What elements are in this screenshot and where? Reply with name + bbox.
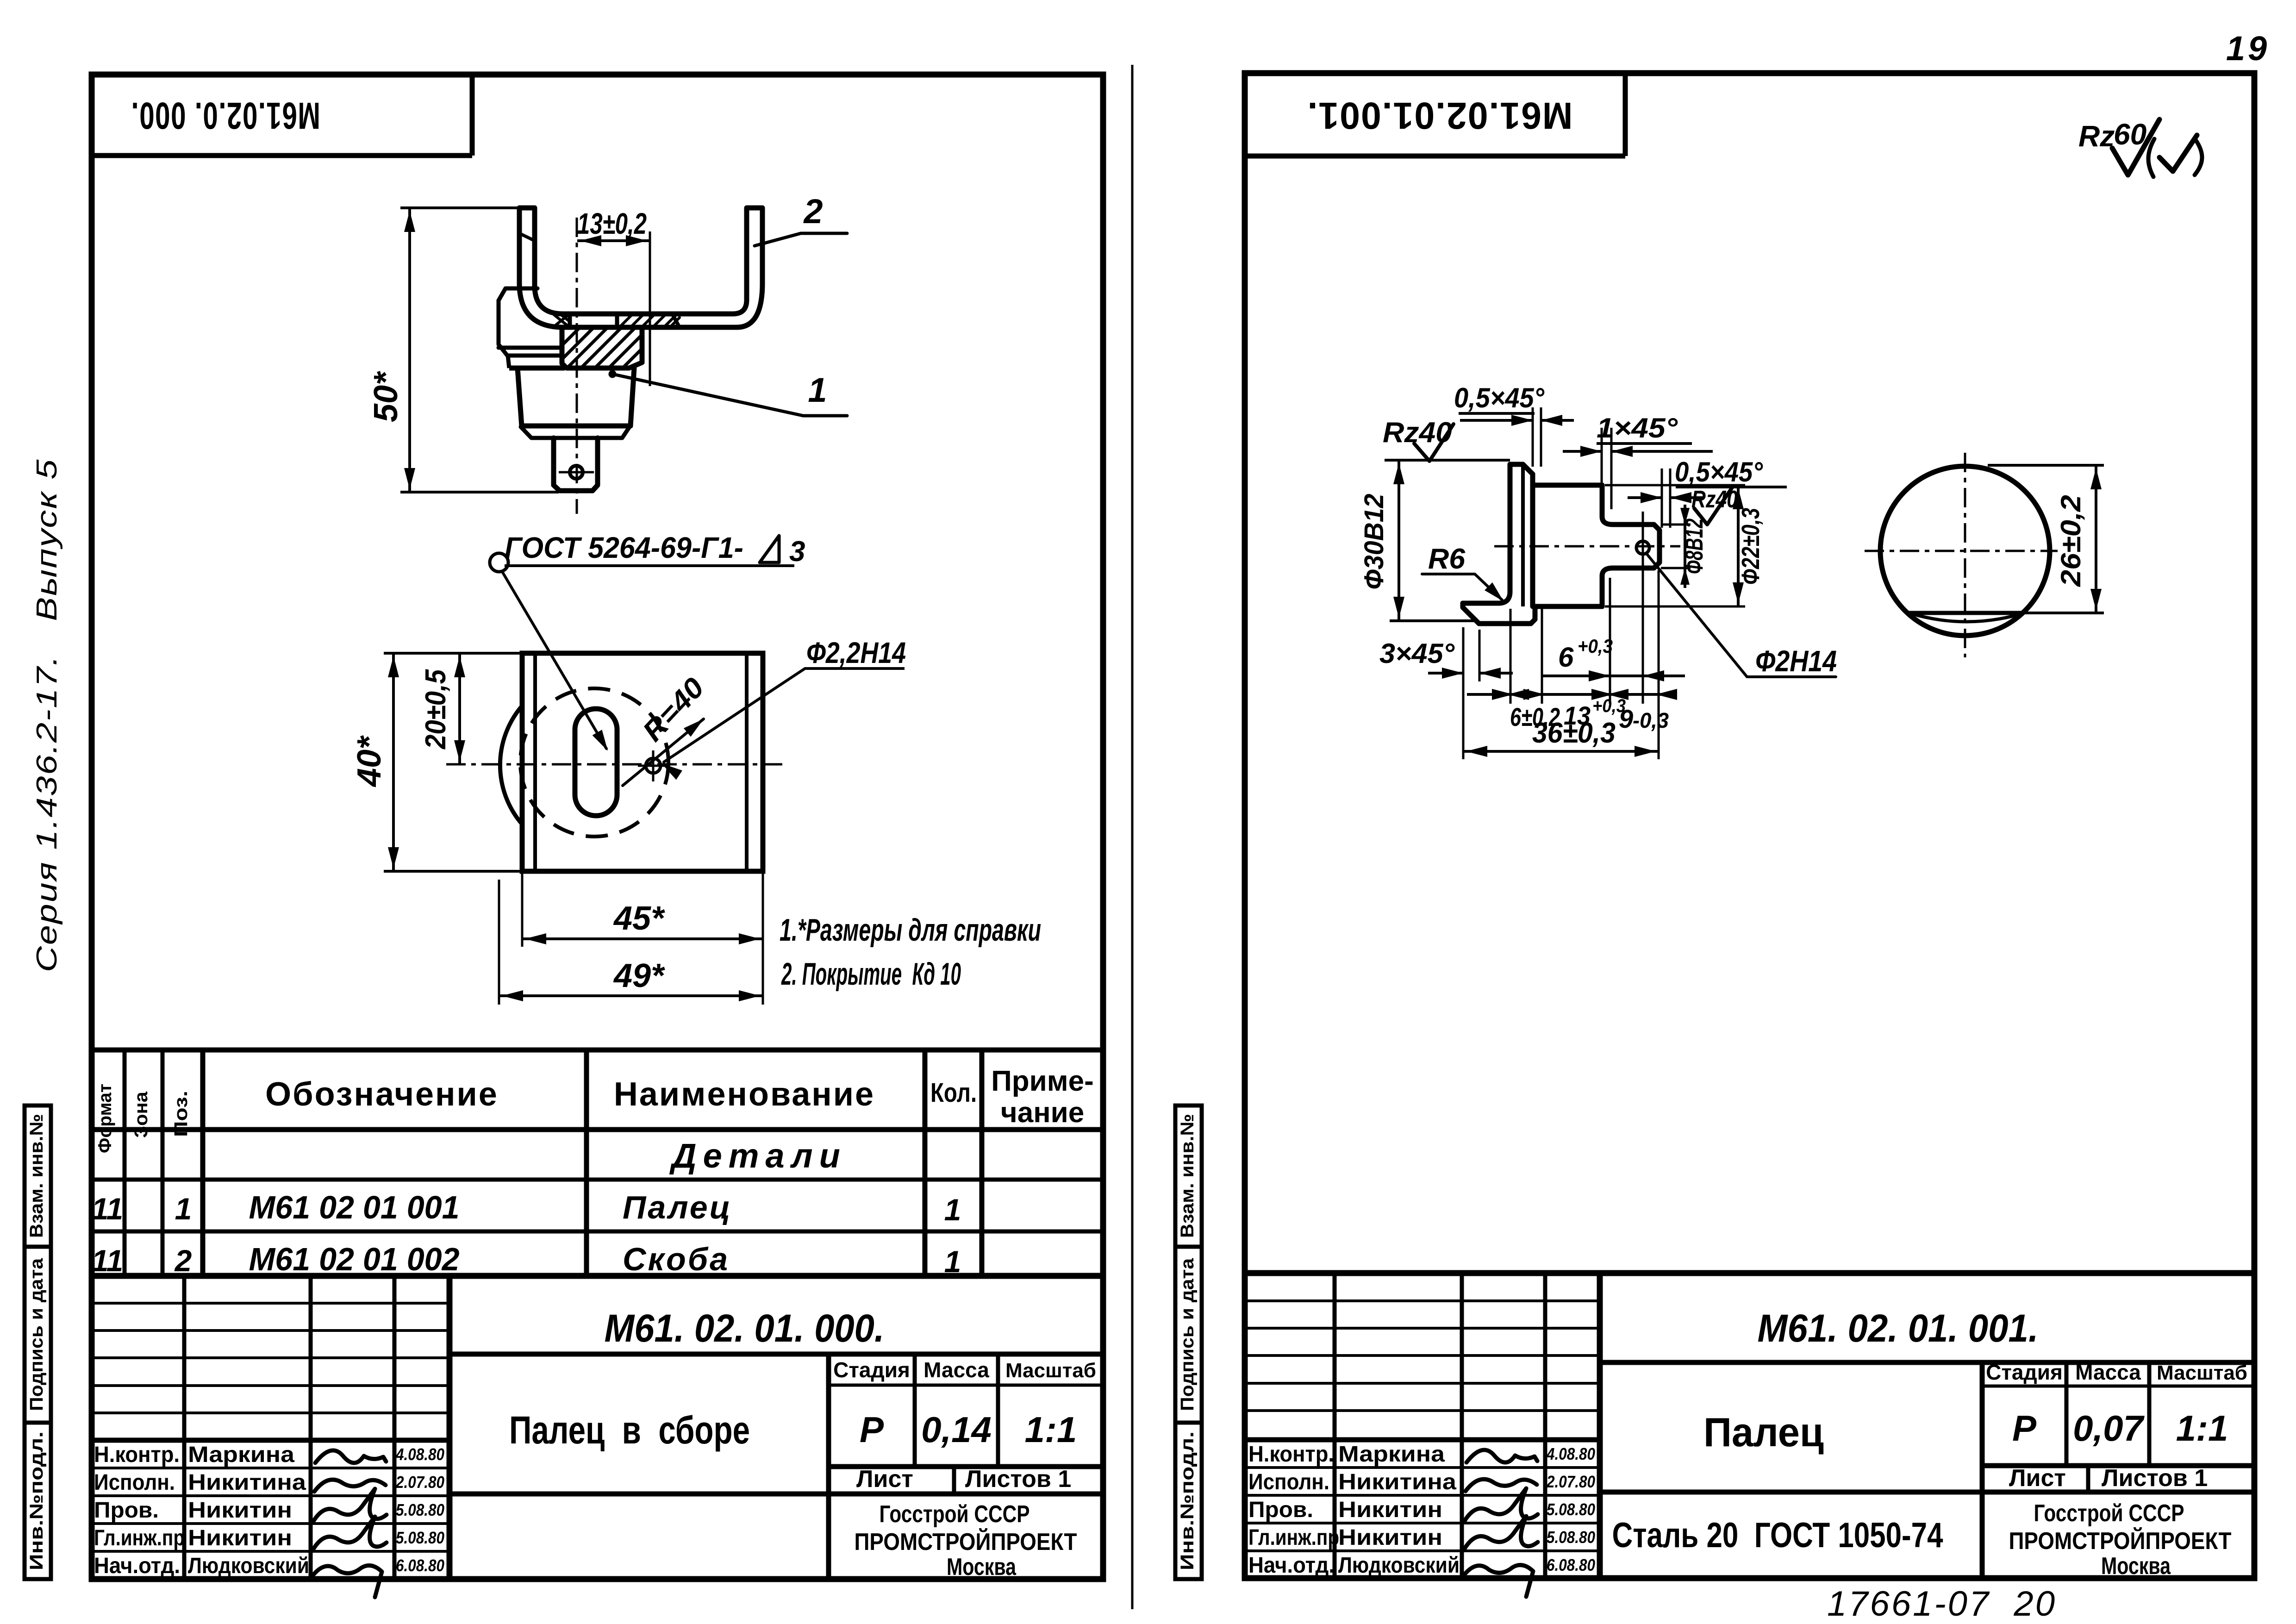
- right name cell: [1980, 1362, 1985, 1492]
- svg-text:Листов 1: Листов 1: [2102, 1465, 2208, 1492]
- svg-text:Подпись и дата: Подпись и дата: [1177, 1258, 1198, 1411]
- dim F8B12: [1661, 524, 1691, 526]
- right title block grid: [1245, 1270, 2254, 1276]
- svg-text:Маркина: Маркина: [1338, 1442, 1445, 1467]
- svg-text:Ф8В12: Ф8В12: [1680, 518, 1708, 574]
- svg-text:9: 9: [1619, 704, 1633, 733]
- svg-text:Исполн.: Исполн.: [1248, 1470, 1329, 1494]
- circle centerlines: [1964, 453, 1966, 657]
- svg-text:М61. 02. 01. 000.: М61. 02. 01. 000.: [605, 1306, 885, 1350]
- signatures right: [1466, 1450, 1537, 1462]
- pin outline: [1510, 464, 1533, 474]
- svg-text:ПРОМСТРОЙПРОЕКТ: ПРОМСТРОЙПРОЕКТ: [855, 1528, 1077, 1555]
- list row: [952, 1467, 956, 1494]
- right designation box: [1600, 1360, 2254, 1365]
- svg-text:4.08.80: 4.08.80: [1546, 1444, 1595, 1463]
- svg-text:Пров.: Пров.: [94, 1498, 159, 1523]
- org name left: [826, 1494, 831, 1579]
- svg-text:40*: 40*: [351, 735, 388, 787]
- pin axis: [1494, 545, 1680, 548]
- svg-text:М61.02.0. 000.: М61.02.0. 000.: [131, 94, 320, 137]
- svg-text:Поз.: Поз.: [171, 1091, 191, 1137]
- dim row 6 13 9: [1510, 609, 1512, 704]
- dim 50* vertical: [408, 208, 411, 492]
- svg-text:2: 2: [803, 192, 823, 231]
- svg-text:0,07: 0,07: [2073, 1408, 2145, 1449]
- svg-text:Р: Р: [2012, 1408, 2037, 1449]
- dim 20pm05: [458, 653, 461, 764]
- svg-text:5.08.80: 5.08.80: [1547, 1500, 1595, 1519]
- svg-text:Никитина: Никитина: [188, 1470, 306, 1495]
- svg-text:Масштаб: Масштаб: [1005, 1359, 1096, 1382]
- callout 1: [609, 371, 616, 377]
- svg-text:19: 19: [2226, 29, 2270, 68]
- svg-text:Масса: Масса: [2075, 1360, 2141, 1384]
- svg-text:Никитина: Никитина: [1338, 1470, 1456, 1494]
- svg-text:Приме-: Приме-: [991, 1065, 1094, 1097]
- svg-text:Стадия: Стадия: [833, 1358, 910, 1382]
- svg-text:Р: Р: [860, 1409, 884, 1450]
- svg-text:Сталь 20 ГОСТ 1050-74: Сталь 20 ГОСТ 1050-74: [1612, 1516, 1943, 1555]
- svg-text:6.08.80: 6.08.80: [396, 1556, 444, 1575]
- weld piece left (X hatch): [554, 315, 569, 326]
- small hole top view: [646, 758, 661, 773]
- svg-text:М61.02.01.001.: М61.02.01.001.: [1307, 94, 1573, 137]
- dim 40*: [392, 653, 395, 871]
- left margin strip boxes: [25, 1106, 51, 1579]
- svg-text:Подпись и дата: Подпись и дата: [26, 1258, 47, 1411]
- left stamp box: [92, 153, 472, 158]
- svg-text:Нач.отд.: Нач.отд.: [94, 1554, 180, 1578]
- parts table outline: [90, 1048, 1103, 1053]
- top view rectangle: [522, 653, 763, 871]
- svg-text:Rz: Rz: [2078, 119, 2115, 153]
- svg-text:Ф2,2Н14: Ф2,2Н14: [806, 636, 906, 669]
- svg-text:Зона: Зона: [131, 1091, 151, 1138]
- right stadia header: [1982, 1385, 2254, 1388]
- svg-text:4.08.80: 4.08.80: [395, 1445, 444, 1464]
- svg-text:Палец в сборе: Палец в сборе: [509, 1408, 750, 1452]
- svg-text:1: 1: [944, 1193, 961, 1227]
- svg-text:М61 02 01 001: М61 02 01 001: [249, 1189, 460, 1225]
- right list row: [2086, 1466, 2090, 1492]
- R=40 label: [623, 719, 704, 786]
- left title block grid: [182, 1276, 187, 1579]
- svg-text:0,5×45°: 0,5×45°: [1675, 456, 1763, 487]
- svg-text:Листов 1: Листов 1: [965, 1466, 1071, 1493]
- svg-text:1:1: 1:1: [2176, 1408, 2228, 1449]
- svg-text:Взам. инв.№: Взам. инв.№: [1177, 1114, 1198, 1238]
- svg-text:Никитин: Никитин: [188, 1498, 292, 1523]
- weld callout GOST 5264-69: [490, 553, 508, 572]
- pin head hatched section: [562, 329, 642, 368]
- svg-text:36±0,3: 36±0,3: [1532, 717, 1616, 749]
- svg-text:5.08.80: 5.08.80: [396, 1500, 444, 1519]
- svg-text:ГОСТ 5264-69-Г1-: ГОСТ 5264-69-Г1-: [505, 531, 743, 564]
- slot obround: [575, 709, 617, 816]
- svg-text:50*: 50*: [368, 371, 405, 422]
- svg-text:Инв.№подл.: Инв.№подл.: [1177, 1431, 1198, 1570]
- svg-text:Взам. инв.№: Взам. инв.№: [26, 1114, 47, 1238]
- pin foot (front, unsectioned): [505, 287, 537, 291]
- svg-text:Никитин: Никитин: [1338, 1498, 1442, 1522]
- svg-text:1: 1: [808, 371, 827, 409]
- svg-text:R6: R6: [1428, 543, 1466, 575]
- svg-text:Наименование: Наименование: [614, 1076, 875, 1113]
- org name right: [1980, 1492, 1985, 1579]
- svg-text:1:1: 1:1: [1025, 1409, 1077, 1450]
- right stamp box: [1245, 154, 1625, 159]
- dim F30B12: [1385, 459, 1460, 462]
- svg-text:5.08.80: 5.08.80: [396, 1528, 444, 1547]
- svg-text:Палец: Палец: [623, 1189, 732, 1225]
- bend lines: [533, 653, 537, 871]
- svg-text:1.*Размеры для справки: 1.*Размеры для справки: [780, 912, 1041, 948]
- svg-text:2.07.80: 2.07.80: [395, 1473, 444, 1492]
- svg-text:Детали: Детали: [669, 1137, 847, 1175]
- dim 49*: [498, 880, 500, 1005]
- svg-text:Н.контр.: Н.контр.: [94, 1443, 180, 1467]
- svg-text:0,5×45°: 0,5×45°: [1454, 382, 1545, 413]
- svg-text:Лист: Лист: [2009, 1465, 2066, 1492]
- flange jog tick: [519, 233, 535, 241]
- svg-text:1: 1: [175, 1192, 192, 1226]
- svg-text:6: 6: [1558, 642, 1574, 673]
- right margin strip boxes: [1175, 1106, 1202, 1579]
- stadia massa masshtab header: [829, 1384, 1103, 1387]
- svg-text:5.08.80: 5.08.80: [1547, 1528, 1595, 1547]
- pin shank: [554, 438, 598, 491]
- svg-text:Гл.инж.пр: Гл.инж.пр: [1248, 1525, 1339, 1550]
- shank hole: [570, 466, 583, 479]
- svg-text:26±0,2: 26±0,2: [2055, 495, 2086, 587]
- svg-text:Госстрой СССР: Госстрой СССР: [880, 1501, 1030, 1528]
- svg-text:2.07.80: 2.07.80: [1546, 1472, 1595, 1491]
- svg-text:Людковский: Людковский: [188, 1554, 309, 1578]
- svg-text:Ф22±0,3: Ф22±0,3: [1737, 508, 1765, 585]
- signatures left: [315, 1450, 386, 1463]
- svg-text:Палец: Палец: [1703, 1409, 1824, 1455]
- flat chord: [1909, 611, 2024, 615]
- svg-text:11: 11: [92, 1192, 124, 1226]
- sheet divider line: [1131, 65, 1134, 1609]
- top view centerline: [446, 763, 787, 766]
- svg-text:Людковский: Людковский: [1338, 1553, 1460, 1578]
- svg-text:Лист: Лист: [856, 1466, 913, 1493]
- dim 36: [1463, 750, 1659, 753]
- svg-text:Исполн.: Исполн.: [94, 1470, 175, 1495]
- pin collar below head: [518, 368, 634, 426]
- web cut piece right hatched: [619, 314, 680, 327]
- callout 2: [755, 233, 847, 246]
- svg-text:2. Покрытие Кд 10: 2. Покрытие Кд 10: [781, 956, 961, 992]
- pin axis centerline: [576, 218, 578, 514]
- svg-text:Пров.: Пров.: [1248, 1498, 1313, 1522]
- svg-text:3×45°: 3×45°: [1379, 638, 1455, 669]
- skoba bracket section: [519, 208, 762, 327]
- svg-text:17661-07 20: 17661-07 20: [1827, 1584, 2057, 1624]
- dim 45*: [521, 871, 524, 947]
- svg-text:6.08.80: 6.08.80: [1547, 1555, 1595, 1574]
- left bulge arc: [500, 707, 521, 823]
- svg-text:М61 02 01 002: М61 02 01 002: [249, 1241, 460, 1277]
- svg-text:М61. 02. 01. 001.: М61. 02. 01. 001.: [1758, 1306, 2039, 1350]
- svg-text:2: 2: [174, 1243, 192, 1278]
- svg-text:45*: 45*: [613, 900, 665, 937]
- svg-text:ПРОМСТРОЙПРОЕКТ: ПРОМСТРОЙПРОЕКТ: [2009, 1527, 2232, 1555]
- svg-text:1: 1: [944, 1244, 961, 1279]
- svg-text:Ф30В12: Ф30В12: [1359, 494, 1389, 590]
- svg-text:Стадия: Стадия: [1986, 1360, 2063, 1384]
- svg-text:Скоба: Скоба: [623, 1241, 730, 1277]
- svg-text:Формат: Формат: [95, 1084, 115, 1153]
- dim 26pm02: [1988, 464, 2104, 467]
- left designation box: [449, 1352, 1103, 1357]
- svg-text:Госстрой СССР: Госстрой СССР: [2034, 1500, 2184, 1527]
- svg-text:20±0,5: 20±0,5: [420, 669, 452, 750]
- svg-text:Инв.№подл.: Инв.№подл.: [26, 1431, 47, 1570]
- svg-text:0,14: 0,14: [921, 1409, 992, 1450]
- svg-text:Никитин: Никитин: [188, 1526, 292, 1550]
- left name cell: [826, 1354, 831, 1494]
- svg-text:3: 3: [789, 536, 805, 568]
- left sheet frame: [92, 75, 1103, 1579]
- svg-text:Москва: Москва: [2101, 1553, 2171, 1580]
- svg-text:Н.контр.: Н.контр.: [1248, 1442, 1334, 1467]
- svg-text:49*: 49*: [613, 957, 665, 994]
- svg-text:Масса: Масса: [923, 1358, 989, 1382]
- svg-text:Маркина: Маркина: [188, 1443, 294, 1467]
- svg-text:Ф2Н14: Ф2Н14: [1755, 644, 1837, 678]
- dim F22pm03: [1605, 484, 1745, 487]
- dashed circle R40: [520, 688, 668, 837]
- svg-text:11: 11: [92, 1243, 124, 1278]
- svg-text:Нач.отд.: Нач.отд.: [1248, 1553, 1335, 1578]
- right sheet frame: [1245, 73, 2254, 1578]
- slot edges in web: [568, 314, 572, 327]
- svg-text:Масштаб: Масштаб: [2157, 1362, 2247, 1384]
- svg-text:Обозначение: Обозначение: [265, 1076, 499, 1113]
- side view circle: [1880, 466, 2050, 636]
- svg-text:Никитин: Никитин: [1338, 1525, 1442, 1550]
- pin hole: [1636, 541, 1649, 554]
- svg-text:Москва: Москва: [947, 1554, 1017, 1580]
- Rz40 left mark: [1460, 459, 1510, 462]
- svg-text:чание: чание: [1001, 1097, 1085, 1129]
- svg-text:1×45°: 1×45°: [1597, 412, 1678, 443]
- collar top edge left segment: [509, 366, 565, 371]
- svg-text:+0,3: +0,3: [1578, 635, 1613, 657]
- svg-text:Гл.инж.пр: Гл.инж.пр: [94, 1526, 185, 1550]
- svg-text:-0,3: -0,3: [1633, 708, 1669, 732]
- svg-text:Кол.: Кол.: [930, 1078, 977, 1108]
- svg-text:Серия 1.436.2-17. Выпуск 5: Серия 1.436.2-17. Выпуск 5: [31, 458, 63, 972]
- svg-text:13±0,2: 13±0,2: [577, 207, 647, 240]
- hole leader F2H14: [1647, 554, 1836, 677]
